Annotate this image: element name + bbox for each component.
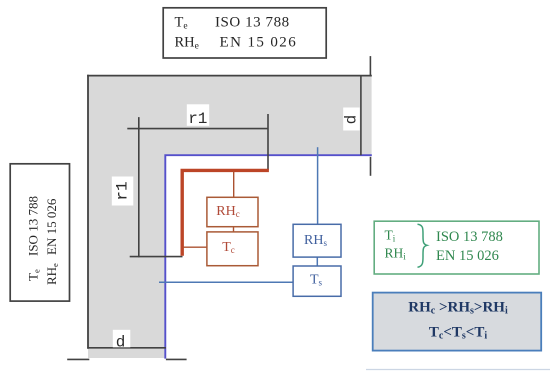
svg-text:d: d [116,334,126,352]
svg-text:ISO 13 788: ISO 13 788 [436,229,503,245]
red wire: thick line to Tc box [184,246,207,248]
dimension r1 vertical: line [138,117,140,257]
dimension d right: main line through wall [360,76,362,155]
dimension r1 horizontal: right tick [267,114,269,170]
dimension d right: lower extension segment [370,157,372,176]
svg-text:ISO 13 788: ISO 13 788 [215,15,290,31]
svg-text:ISO 13 788: ISO 13 788 [26,196,41,256]
svg-text:EN 15 026: EN 15 026 [44,198,59,255]
dimension r1 vertical: bottom tick [130,256,183,258]
svg-text:RHc >RHs>RHi: RHc >RHs>RHi [408,300,508,317]
label r1 (vertical dim, rotated) [112,177,134,206]
wall exterior top edge [87,75,372,77]
thick red wall line (L-shape at corner) [182,170,269,255]
faint bottom divider line [366,369,550,371]
blue wire: interior surface to Ts box [159,281,293,283]
box RHc [207,197,258,226]
label r1 (horizontal dim) [187,104,209,128]
wall exterior left edge [87,75,89,349]
label d (right, rotated) [343,108,361,131]
dimension d bottom: main line through wall [87,347,166,349]
box exterior legend (top) [163,8,326,58]
label d (bottom) [113,330,131,352]
svg-text:EN 15 026: EN 15 026 [436,248,499,264]
svg-text:d: d [343,115,361,125]
svg-text:EN 15 026: EN 15 026 [220,35,298,51]
box RHs [293,224,341,257]
dimension d right: upper extension segment [369,56,371,76]
brace in green box [418,224,428,267]
box Tc [207,232,258,266]
blue wire: drop from interior surface to RHs box [317,147,319,224]
dimension d bottom: left extension segment [67,358,89,360]
svg-text:r1: r1 [114,181,132,200]
box exterior legend (left, rotated) [10,164,69,301]
box Ts [293,266,341,296]
red wire: drop from thick line to RHc box [233,172,235,198]
box result (grey, bottom right) [373,293,542,351]
blue wire: RHs to Ts connector [316,257,318,266]
interior surface blue line (L-shape) [165,155,371,358]
svg-text:Tc<Ts<Ti: Tc<Ts<Ti [429,325,488,342]
box interior legend (green) [374,221,539,274]
svg-text:r1: r1 [188,110,207,128]
red wire: RHc to Tc connector [233,227,235,232]
dimension d bottom: right extension segment [166,358,187,360]
dimension r1 horizontal: line [127,128,268,130]
svg-text:RHi: RHi [385,246,407,262]
wall grey L-shaped fill [88,76,372,359]
